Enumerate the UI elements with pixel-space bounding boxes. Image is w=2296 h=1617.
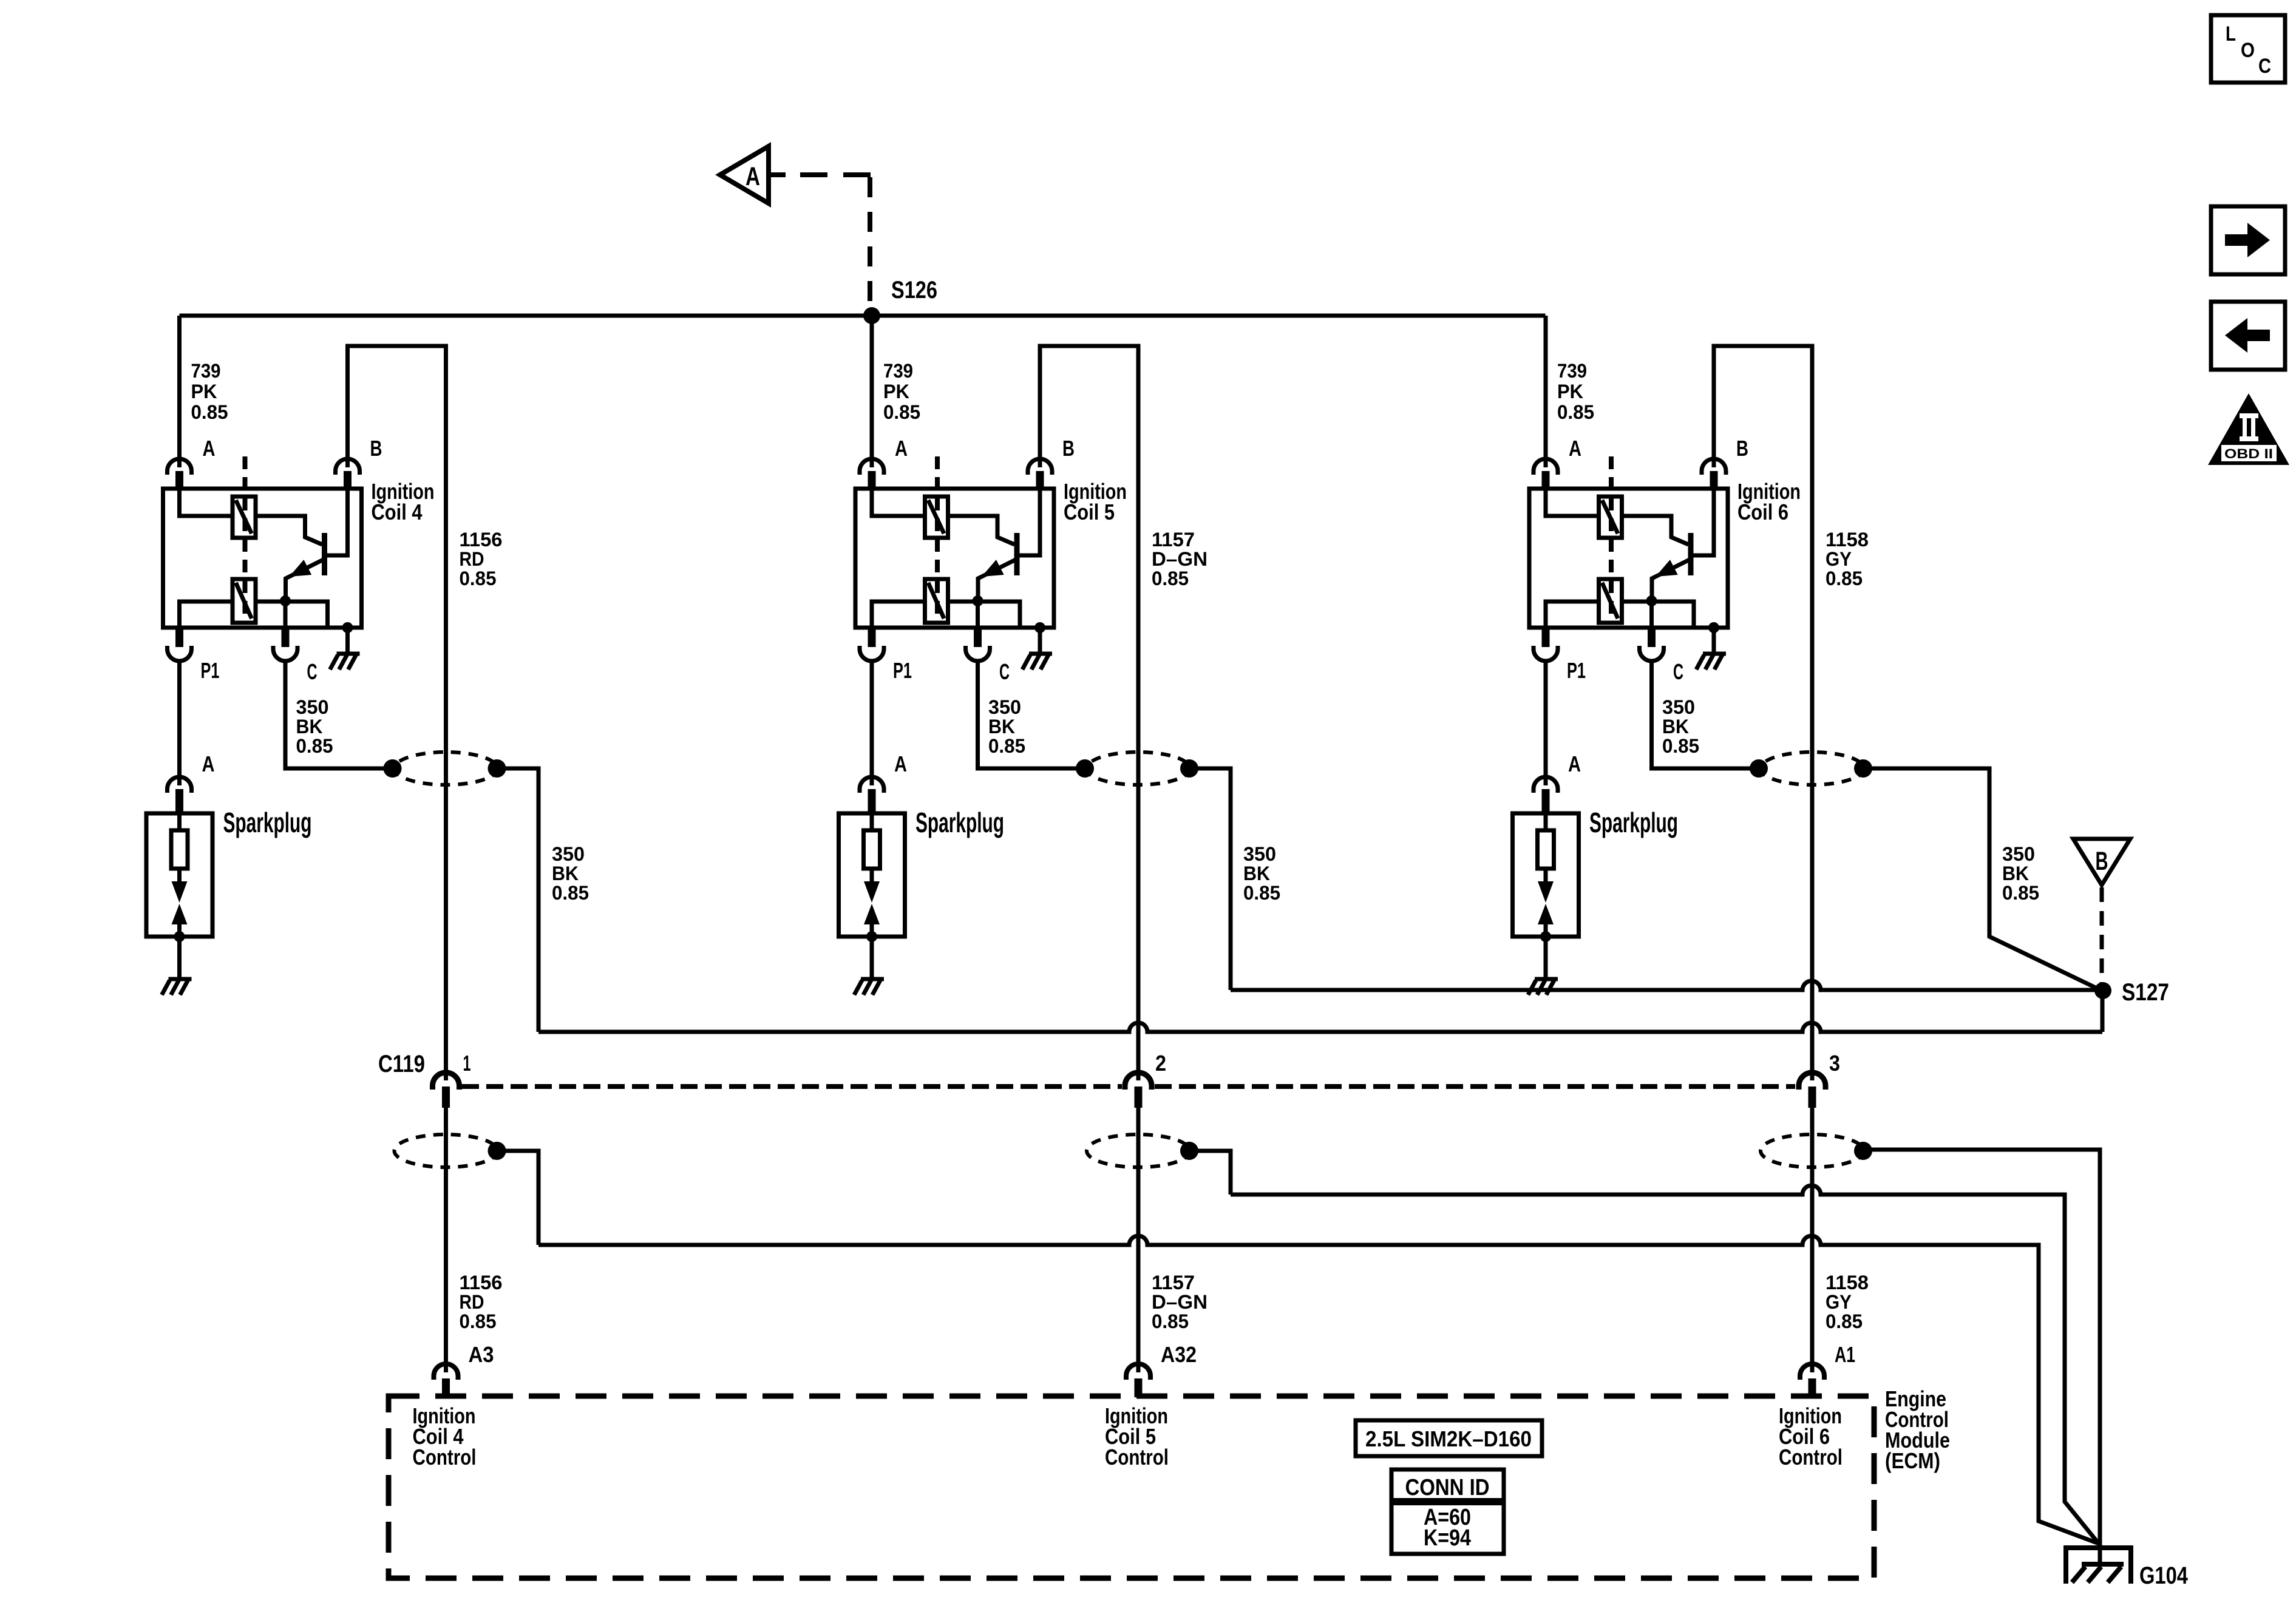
shield ellipse lower (coil 6) (1761, 1134, 1864, 1167)
wire: primary to transistor base (coil 4) (256, 516, 322, 544)
ground: coil 4 internal chassis ground (330, 654, 360, 670)
svg-text:0.85: 0.85 (1662, 735, 1699, 757)
primary winding (coil 4) (233, 497, 256, 538)
splice S126 (863, 307, 880, 324)
svg-text:D–GN: D–GN (1152, 1291, 1207, 1313)
wire: secondary bottom rail (coil 4) (180, 602, 233, 628)
pin P1 (coil 4) (175, 628, 183, 647)
svg-text:BK: BK (2002, 863, 2029, 884)
svg-text:2.5L SIM2K–D160: 2.5L SIM2K–D160 (1365, 1426, 1532, 1451)
svg-text:0.85: 0.85 (460, 568, 497, 589)
svg-text:BK: BK (1662, 716, 1689, 737)
svg-text:CONN ID: CONN ID (1405, 1475, 1490, 1500)
pin P1 (coil 6) (1542, 628, 1550, 647)
svg-text:S127: S127 (2122, 979, 2169, 1006)
svg-text:C119: C119 (378, 1051, 425, 1077)
connector C119 dashed line (462, 1084, 1122, 1089)
svg-text:D–GN: D–GN (1152, 548, 1207, 570)
svg-text:B: B (1736, 436, 1748, 461)
svg-text:A32: A32 (1161, 1342, 1197, 1367)
svg-text:B: B (370, 436, 382, 461)
svg-text:L: L (2226, 22, 2236, 46)
secondary winding (coil 5) (925, 579, 948, 623)
pin C (coil 5) (974, 628, 982, 647)
junction dot: internal ground tie (coil 6) (1708, 622, 1719, 633)
svg-text:350: 350 (2002, 843, 2035, 865)
wire: sparkplug to ground (coil 5) (870, 937, 874, 977)
splice dot: lower shield (coil 4) (488, 1142, 506, 1160)
icon: OBD II triangle (2208, 393, 2289, 465)
svg-text:PK: PK (191, 381, 217, 402)
svg-text:1156: 1156 (460, 1272, 503, 1293)
splice dot: shield left (coil 5) (1076, 759, 1094, 778)
svg-text:1158: 1158 (1826, 1272, 1869, 1293)
wire: 739 PK feed into pin A (coil 6) (1544, 316, 1548, 467)
shield ellipse upper (coil 5) (1087, 752, 1190, 785)
shield ellipse lower (coil 4) (395, 1134, 498, 1167)
wire: control wire below C119 (coil 6) (1810, 1108, 1815, 1372)
wire: 739 PK feed into pin A (coil 5) (870, 316, 874, 467)
pin B (coil 5) (1028, 459, 1052, 475)
wire: pin A to primary (coil 4) (180, 489, 233, 516)
svg-text:A1: A1 (1835, 1342, 1855, 1367)
sparkplug 6 gap arrows (1544, 869, 1548, 883)
wire: control wire below C119 (coil 4) (444, 1108, 448, 1372)
svg-text:A: A (746, 162, 760, 191)
ignition coil 5 box (855, 489, 1054, 628)
svg-text:BK: BK (296, 716, 323, 737)
svg-text:0.85: 0.85 (460, 1310, 497, 1332)
wire: internal ground drop (coil 4) (345, 628, 350, 652)
wire: primary to transistor base (coil 6) (1622, 516, 1689, 544)
svg-text:739: 739 (883, 360, 913, 382)
junction dot: emitter/secondary (coil 4) (280, 595, 291, 606)
ECM pin A3 (coil 4) (434, 1364, 458, 1380)
svg-text:Control: Control (1779, 1445, 1843, 1470)
svg-text:A3: A3 (469, 1342, 494, 1367)
svg-text:PK: PK (883, 381, 909, 402)
ground: sparkplug 4 chassis ground (162, 979, 192, 995)
wire: secondary P1 lead to sparkplug (coil 5) (870, 660, 874, 785)
core dashed line (coil 4) (243, 456, 248, 622)
sparkplug 4 box (146, 813, 212, 937)
svg-text:350: 350 (296, 696, 329, 718)
svg-text:O: O (2241, 39, 2255, 62)
secondary winding (coil 4) (233, 579, 256, 623)
svg-text:350: 350 (1243, 843, 1276, 865)
svg-text:Control: Control (413, 1445, 477, 1470)
splice dot: lower shield (coil 6) (1854, 1142, 1872, 1160)
svg-text:Sparkplug: Sparkplug (1589, 807, 1678, 838)
ground: coil 5 internal chassis ground (1022, 654, 1052, 670)
svg-text:RD: RD (460, 548, 484, 570)
svg-text:C: C (999, 659, 1010, 684)
connector C119 pin 2 (coil 5) (1125, 1073, 1152, 1090)
junction dot: emitter/secondary (coil 5) (973, 595, 983, 606)
junction dot: internal ground tie (coil 5) (1034, 622, 1045, 633)
module id box 2.5L SIM2K-D160 (1356, 1420, 1542, 1456)
svg-text:2: 2 (1155, 1051, 1166, 1076)
secondary winding (coil 6) (1599, 579, 1622, 623)
wire: primary to transistor base (coil 5) (948, 516, 1015, 544)
off-page connector triangle B (2073, 839, 2130, 885)
svg-text:Control: Control (1105, 1445, 1169, 1470)
splice dot: shield right (coil 5) (1180, 759, 1198, 778)
svg-text:0.85: 0.85 (1557, 401, 1594, 423)
transistor Q4 (coil driver) (322, 533, 327, 575)
pin B (coil 6) (1702, 459, 1726, 475)
splice dot: shield left (coil 6) (1750, 759, 1768, 778)
wire: 350 BK from pin C (coil 4) (285, 660, 393, 768)
wire: 350 BK from pin C (coil 5) (978, 660, 1085, 768)
ECM pin A32 (coil 5) (1126, 1364, 1150, 1380)
connector C119 pin 1 (coil 4) (433, 1073, 460, 1090)
svg-text:0.85: 0.85 (552, 882, 589, 904)
svg-text:RD: RD (460, 1291, 484, 1313)
wire: 350 BK splice to S127 drop (coil 4) (497, 768, 539, 1032)
svg-text:0.85: 0.85 (1243, 882, 1280, 904)
svg-text:0.85: 0.85 (1152, 568, 1189, 589)
svg-text:1158: 1158 (1826, 529, 1869, 551)
wire: internal ground drop (coil 5) (1038, 628, 1042, 652)
splice dot: lower shield (coil 5) (1180, 1142, 1198, 1160)
svg-text:0.85: 0.85 (1826, 568, 1863, 589)
ground: coil 6 internal chassis ground (1696, 654, 1726, 670)
pin A (coil 4) (168, 459, 192, 475)
svg-text:3: 3 (1829, 1051, 1840, 1076)
svg-text:0.85: 0.85 (883, 401, 920, 423)
junction dot: sparkplug shell (coil 4) (174, 931, 185, 942)
svg-text:S126: S126 (891, 277, 937, 303)
wire: ignition voltage bus 739 PK from S126 (180, 314, 1546, 318)
junction dot: internal ground tie (coil 4) (342, 622, 353, 633)
sparkplug 6 box (1513, 813, 1579, 937)
svg-text:1: 1 (463, 1051, 471, 1076)
sparkplug 5 resistor (864, 830, 880, 869)
wire: shield drain branch (coil 6) (1863, 1150, 2100, 1564)
shield ellipse upper (coil 4) (395, 752, 498, 785)
sparkplug 5 box (839, 813, 905, 937)
pin B (coil 4) (336, 459, 360, 475)
wire: pin A to primary (coil 6) (1546, 489, 1599, 516)
svg-text:P1: P1 (201, 658, 220, 683)
svg-text:A: A (1569, 436, 1581, 461)
svg-text:BK: BK (1243, 863, 1270, 884)
wire: control wire below C119 (coil 5) (1136, 1108, 1141, 1372)
svg-text:(ECM): (ECM) (1885, 1448, 1940, 1473)
svg-text:739: 739 (191, 360, 221, 382)
wire: collector lead pin B to control wire (coil 6) (1714, 346, 1812, 1080)
svg-text:Coil 4: Coil 4 (372, 500, 423, 524)
svg-text:0.85: 0.85 (1826, 1310, 1863, 1332)
splice dot: shield right (coil 4) (488, 759, 506, 778)
svg-text:A: A (203, 436, 216, 461)
wire: 350 BK coil4 splice to S127 stub (hops over C119 wires) (538, 1023, 2102, 1032)
svg-text:Coil 6: Coil 6 (1737, 500, 1788, 524)
svg-text:OBD II: OBD II (2224, 446, 2273, 461)
pin C (coil 4) (282, 628, 290, 647)
transistor Q5 (coil driver) (1014, 533, 1020, 575)
icon: back arrow box (2211, 302, 2285, 370)
svg-text:A: A (895, 436, 908, 461)
core dashed line (coil 6) (1609, 456, 1614, 622)
off-page connector triangle A (720, 146, 769, 203)
svg-text:0.85: 0.85 (191, 401, 228, 423)
svg-text:GY: GY (1826, 548, 1852, 570)
svg-text:B: B (2096, 847, 2108, 876)
wire: S127 down-stub (2101, 988, 2105, 1032)
svg-text:P1: P1 (893, 658, 912, 683)
wire: collector lead pin B to control wire (coil 4) (348, 346, 446, 1080)
svg-text:A: A (202, 751, 215, 776)
wire: secondary bottom rail (coil 6) (1546, 602, 1599, 628)
pin A (coil 5) (860, 459, 884, 475)
svg-text:Sparkplug: Sparkplug (223, 807, 312, 838)
svg-text:A: A (894, 751, 907, 776)
svg-text:350: 350 (552, 843, 585, 865)
wire: shield drain branch (coil 4) (497, 1151, 539, 1245)
svg-text:739: 739 (1557, 360, 1587, 382)
wire: 350 BK splice to S127 drop (coil 6) (1863, 768, 2101, 990)
svg-text:0.85: 0.85 (296, 735, 333, 757)
ignition coil 6 box (1529, 489, 1728, 628)
wire: 350 BK coil5 branch to G104 (hop over 1158 GY) (1231, 1185, 2099, 1544)
svg-text:Coil 5: Coil 5 (1064, 500, 1115, 524)
svg-text:C: C (1673, 659, 1683, 684)
svg-text:0.85: 0.85 (988, 735, 1025, 757)
wire: 350 BK coil4 branch to G104 (hops over C119 wires) (538, 1236, 2099, 1544)
svg-text:C: C (307, 659, 318, 684)
svg-text:A: A (1568, 751, 1581, 776)
wire: dashed link triangle A to S126 (784, 172, 872, 177)
shield ellipse upper (coil 6) (1761, 752, 1864, 785)
svg-text:K=94: K=94 (1424, 1525, 1471, 1551)
wire: pin A to primary (coil 5) (872, 489, 925, 516)
sparkplug 4 resistor (171, 830, 188, 869)
wire: solid stub from triangle A (769, 172, 786, 177)
connector C119 pin 3 (coil 6) (1799, 1073, 1826, 1090)
ECM dashed outline box (389, 1396, 1874, 1578)
pin P1 (coil 5) (868, 628, 876, 647)
icon: forward arrow box (2211, 206, 2285, 274)
splice S127 (2094, 982, 2111, 999)
svg-text:C: C (2258, 55, 2271, 78)
svg-text:350: 350 (1662, 696, 1695, 718)
transistor Q6 (coil driver) (1688, 533, 1694, 575)
pin C (coil 6) (1648, 628, 1656, 647)
svg-text:1157: 1157 (1152, 529, 1195, 551)
svg-text:350: 350 (988, 696, 1021, 718)
wire: sparkplug to ground (coil 4) (177, 937, 182, 977)
junction dot: emitter/secondary (coil 6) (1646, 595, 1657, 606)
shield ellipse lower (coil 5) (1087, 1134, 1190, 1167)
pin A sparkplug (coil 4) (168, 777, 192, 793)
pin A sparkplug (coil 6) (1533, 777, 1558, 793)
svg-text:Sparkplug: Sparkplug (915, 807, 1004, 838)
svg-text:BK: BK (552, 863, 579, 884)
core dashed line (coil 5) (935, 456, 940, 622)
ground G104 chassis symbol (2082, 1562, 2124, 1567)
primary winding (coil 5) (925, 497, 948, 538)
pin A sparkplug (coil 5) (860, 777, 884, 793)
wire: 350 BK splice to S127 drop (coil 5) (1189, 768, 1231, 990)
svg-text:P1: P1 (1567, 658, 1586, 683)
svg-text:0.85: 0.85 (2002, 882, 2039, 904)
wire: sparkplug to ground (coil 6) (1544, 937, 1548, 977)
sparkplug 4 gap arrows (177, 869, 182, 883)
splice dot: shield right (coil 6) (1854, 759, 1872, 778)
wire: internal ground drop (coil 6) (1712, 628, 1716, 652)
wire: 739 PK feed into pin A (coil 4) (177, 316, 182, 467)
wire: 350 BK coil5 splice to S127 (with hop over 1158 GY) (1231, 981, 2103, 990)
ignition coil 4 box (163, 489, 362, 628)
wire: 350 BK from pin C (coil 6) (1652, 660, 1759, 768)
splice dot: shield left (coil 4) (384, 759, 402, 778)
svg-text:GY: GY (1826, 1291, 1852, 1313)
svg-text:1157: 1157 (1152, 1272, 1195, 1293)
ground G104 enclosure (2063, 1545, 2133, 1550)
wire: secondary P1 lead to sparkplug (coil 4) (177, 660, 182, 785)
icon: LOC box (2211, 15, 2285, 83)
wire: secondary bottom rail (coil 5) (872, 602, 925, 628)
svg-text:0.85: 0.85 (1152, 1310, 1189, 1332)
pin A (coil 6) (1533, 459, 1558, 475)
ground: sparkplug 5 chassis ground (854, 979, 884, 995)
primary winding (coil 6) (1599, 497, 1622, 538)
wire: secondary P1 lead to sparkplug (coil 6) (1544, 660, 1548, 785)
sparkplug 6 resistor (1538, 830, 1554, 869)
svg-text:PK: PK (1557, 381, 1583, 402)
sparkplug 5 gap arrows (870, 869, 874, 883)
junction dot: sparkplug shell (coil 6) (1540, 931, 1551, 942)
CONN ID box (1391, 1470, 1504, 1554)
wire: dashed link triangle B to S127 (2100, 887, 2104, 986)
svg-text:G104: G104 (2139, 1562, 2189, 1589)
wire: collector lead pin B to control wire (coil 5) (1040, 346, 1138, 1080)
svg-text:BK: BK (988, 716, 1015, 737)
ground: sparkplug 6 chassis ground (1528, 979, 1558, 995)
svg-text:B: B (1062, 436, 1075, 461)
svg-text:1156: 1156 (460, 529, 503, 551)
junction dot: sparkplug shell (coil 5) (866, 931, 877, 942)
ECM pin A1 (coil 6) (1800, 1364, 1824, 1380)
wire: shield drain branch (coil 5) (1189, 1151, 1231, 1195)
